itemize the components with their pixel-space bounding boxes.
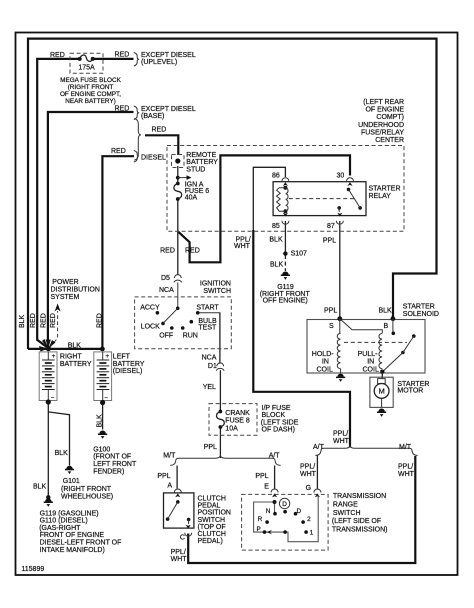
- svg-text:BLK: BLK: [68, 343, 82, 350]
- svg-text:SYSTEM: SYSTEM: [51, 294, 80, 301]
- svg-text:D: D: [282, 501, 287, 508]
- svg-text:WHT: WHT: [333, 438, 350, 445]
- svg-text:TRANSMISSION): TRANSMISSION): [332, 527, 388, 534]
- svg-text:G110 (DIESEL): G110 (DIESEL): [40, 518, 88, 525]
- svg-text:TRANSMISSION: TRANSMISSION: [333, 493, 386, 500]
- svg-text:(FRONT OF: (FRONT OF: [93, 454, 131, 461]
- svg-text:N: N: [266, 508, 271, 515]
- svg-text:PEDAL): PEDAL): [198, 538, 223, 545]
- svg-text:SWITCH: SWITCH: [333, 510, 361, 517]
- svg-text:COIL: COIL: [317, 366, 333, 373]
- svg-text:OF ENGINE COMPT,: OF ENGINE COMPT,: [60, 91, 121, 98]
- svg-text:YEL: YEL: [203, 384, 216, 391]
- svg-text:A/T: A/T: [313, 444, 325, 451]
- svg-text:CRANK: CRANK: [225, 410, 250, 417]
- svg-text:SOLENOID: SOLENOID: [403, 311, 439, 318]
- svg-text:NEAR BATTERY): NEAR BATTERY): [65, 98, 116, 105]
- svg-text:PULL-: PULL-: [358, 351, 379, 358]
- svg-text:OFF ENGINE): OFF ENGINE): [263, 298, 308, 305]
- svg-text:(GAS-RIGHT: (GAS-RIGHT: [39, 525, 81, 532]
- svg-text:FUSE 8: FUSE 8: [225, 418, 250, 425]
- svg-text:BLOCK: BLOCK: [262, 412, 286, 419]
- svg-text:COMPT): COMPT): [376, 114, 404, 121]
- svg-text:BATTERY: BATTERY: [113, 361, 145, 368]
- svg-text:STARTER: STARTER: [369, 186, 401, 193]
- svg-text:85: 85: [272, 223, 280, 230]
- svg-text:COIL: COIL: [363, 366, 379, 373]
- svg-text:D5: D5: [161, 275, 170, 282]
- svg-text:BLK: BLK: [269, 237, 283, 244]
- svg-text:M/T: M/T: [399, 444, 412, 451]
- svg-text:BLK: BLK: [270, 262, 284, 269]
- svg-text:(LEFT SIDE: (LEFT SIDE: [261, 420, 299, 427]
- svg-text:(RIGHT FRONT: (RIGHT FRONT: [61, 486, 112, 493]
- svg-text:TEST: TEST: [198, 325, 217, 332]
- svg-text:CENTER: CENTER: [375, 137, 404, 144]
- svg-text:OF ENGINE: OF ENGINE: [365, 107, 404, 114]
- svg-text:PPL: PPL: [204, 444, 217, 451]
- svg-text:BATTERY: BATTERY: [60, 361, 92, 368]
- svg-text:B: B: [384, 323, 389, 330]
- svg-text:WHEELHOUSE): WHEELHOUSE): [61, 494, 113, 501]
- svg-text:ACCY: ACCY: [140, 305, 160, 312]
- svg-text:G: G: [306, 485, 311, 492]
- svg-text:PPL/: PPL/: [171, 549, 186, 556]
- svg-text:PPL/: PPL/: [333, 431, 348, 438]
- svg-text:(LEFT REAR: (LEFT REAR: [363, 99, 404, 106]
- svg-text:DIESEL-LEFT FRONT OF: DIESEL-LEFT FRONT OF: [40, 540, 122, 547]
- svg-text:DISTRIBUTION: DISTRIBUTION: [51, 287, 100, 294]
- svg-text:86: 86: [272, 173, 280, 180]
- svg-text:BATTERY: BATTERY: [186, 159, 218, 166]
- svg-text:+: +: [52, 353, 56, 360]
- svg-text:A: A: [167, 482, 172, 489]
- svg-text:RUN: RUN: [183, 333, 198, 340]
- svg-text:LEFT: LEFT: [113, 354, 131, 361]
- svg-text:RED: RED: [115, 106, 130, 113]
- svg-text:RED: RED: [185, 247, 200, 254]
- svg-text:STARTER: STARTER: [403, 304, 435, 311]
- svg-text:P: P: [257, 526, 261, 533]
- svg-text:INTAKE MANIFOLD): INTAKE MANIFOLD): [40, 547, 105, 554]
- svg-text:G100: G100: [93, 447, 110, 454]
- svg-text:WHT: WHT: [398, 471, 415, 478]
- svg-text:30: 30: [337, 173, 345, 180]
- svg-text:PPL/: PPL/: [300, 464, 315, 471]
- svg-text:S107: S107: [291, 251, 307, 258]
- svg-text:(LEFT SIDE OF: (LEFT SIDE OF: [332, 518, 381, 525]
- svg-text:BLK: BLK: [19, 314, 26, 328]
- svg-text:M/T: M/T: [163, 452, 176, 459]
- svg-text:CLUTCH: CLUTCH: [198, 496, 226, 503]
- svg-text:MEGA FUSE BLOCK: MEGA FUSE BLOCK: [60, 77, 121, 84]
- svg-text:MOTOR: MOTOR: [397, 388, 423, 395]
- svg-text:87: 87: [327, 223, 335, 230]
- svg-text:BLK: BLK: [55, 450, 69, 457]
- svg-text:D1: D1: [208, 363, 217, 370]
- svg-text:LEFT FRONT: LEFT FRONT: [93, 461, 137, 468]
- svg-text:RED: RED: [50, 313, 57, 328]
- svg-text:RED: RED: [115, 52, 130, 59]
- svg-text:WHT: WHT: [171, 556, 188, 563]
- svg-text:BLK: BLK: [33, 484, 47, 491]
- svg-text:OFF: OFF: [159, 333, 173, 340]
- svg-text:PPL: PPL: [255, 473, 268, 480]
- svg-text:RELAY: RELAY: [369, 193, 392, 200]
- svg-text:HOLD-: HOLD-: [312, 351, 334, 358]
- svg-text:SWITCH: SWITCH: [198, 517, 226, 524]
- svg-text:RED: RED: [152, 127, 167, 134]
- svg-text:IN: IN: [367, 359, 374, 366]
- svg-text:RANGE: RANGE: [333, 501, 358, 508]
- svg-text:E: E: [264, 483, 269, 490]
- svg-text:LOCK: LOCK: [141, 324, 160, 331]
- svg-text:(RIGHT FRONT: (RIGHT FRONT: [68, 84, 114, 91]
- svg-text:RIGHT: RIGHT: [60, 354, 83, 361]
- svg-text:FRONT OF ENGINE: FRONT OF ENGINE: [40, 532, 105, 539]
- svg-text:WHT: WHT: [234, 243, 251, 250]
- svg-text:PPL/: PPL/: [398, 464, 413, 471]
- svg-text:I/P FUSE: I/P FUSE: [262, 405, 291, 412]
- svg-text:POWER: POWER: [52, 279, 78, 286]
- svg-text:(UPLEVEL): (UPLEVEL): [141, 59, 177, 66]
- svg-text:(TOP OF: (TOP OF: [198, 524, 226, 531]
- svg-text:CLUTCH: CLUTCH: [198, 531, 226, 538]
- svg-text:RED: RED: [111, 148, 126, 155]
- svg-text:STUD: STUD: [186, 166, 205, 173]
- svg-text:RED: RED: [96, 313, 103, 328]
- svg-text:175A: 175A: [78, 65, 95, 72]
- svg-text:A/T: A/T: [269, 452, 281, 459]
- svg-text:(BASE): (BASE): [141, 113, 164, 120]
- svg-text:G101: G101: [63, 478, 80, 485]
- svg-text:+: +: [105, 353, 109, 360]
- svg-text:RED: RED: [41, 313, 48, 328]
- svg-text:2: 2: [307, 516, 311, 523]
- svg-text:PPL: PPL: [157, 473, 170, 480]
- svg-text:REMOTE: REMOTE: [186, 152, 216, 159]
- svg-text:OF DASH): OF DASH): [262, 427, 295, 434]
- svg-text:PPL: PPL: [323, 237, 336, 244]
- svg-text:M: M: [378, 387, 384, 396]
- svg-text:RED: RED: [160, 247, 175, 254]
- svg-text:(DIESEL): (DIESEL): [113, 368, 143, 375]
- svg-text:10A: 10A: [225, 426, 238, 433]
- svg-text:SWITCH: SWITCH: [203, 288, 231, 295]
- svg-text:1: 1: [310, 530, 314, 537]
- svg-text:BLK: BLK: [379, 308, 393, 315]
- svg-text:FUSE/RELAY: FUSE/RELAY: [361, 129, 404, 136]
- svg-text:RED: RED: [30, 313, 37, 328]
- svg-text:UNDERHOOD: UNDERHOOD: [358, 122, 404, 129]
- svg-text:D: D: [297, 508, 302, 515]
- svg-text:WHT: WHT: [300, 471, 317, 478]
- svg-text:RED: RED: [50, 52, 65, 59]
- svg-text:START: START: [196, 305, 219, 312]
- svg-text:S: S: [329, 323, 334, 330]
- svg-text:C: C: [180, 535, 185, 542]
- svg-text:NCA: NCA: [159, 287, 174, 294]
- svg-text:R: R: [258, 516, 263, 523]
- svg-text:BLK: BLK: [97, 414, 104, 428]
- svg-text:115899: 115899: [21, 566, 44, 573]
- svg-text:IN: IN: [322, 359, 329, 366]
- svg-text:G119 (GASOLINE): G119 (GASOLINE): [40, 510, 99, 517]
- svg-text:POSITION: POSITION: [198, 510, 231, 517]
- svg-text:40A: 40A: [185, 194, 198, 201]
- svg-text:PEDAL: PEDAL: [198, 503, 221, 510]
- svg-text:IGNITION: IGNITION: [200, 281, 231, 288]
- svg-text:FENDER): FENDER): [93, 468, 124, 475]
- svg-text:PPL: PPL: [324, 308, 337, 315]
- svg-text:DIESEL: DIESEL: [141, 155, 166, 162]
- svg-text:NCA: NCA: [202, 355, 217, 362]
